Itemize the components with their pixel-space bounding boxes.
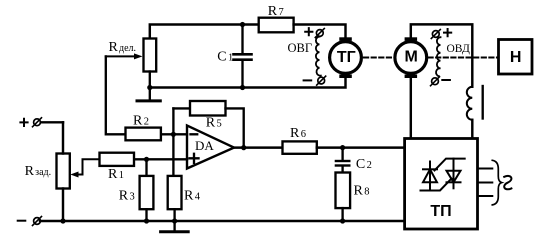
thyristor VS1 left — [423, 162, 437, 191]
terminal input plus — [20, 118, 63, 127]
svg-text:Rзад.: Rзад. — [25, 164, 52, 179]
wiper arrow of Rдел — [106, 53, 143, 59]
wire R6 to TP — [317, 146, 405, 148]
node R5 branch on inverting wire — [171, 132, 176, 137]
svg-text:М: М — [405, 49, 418, 66]
svg-text:Rдел.: Rдел. — [109, 40, 137, 55]
node feedback on output wire — [241, 145, 246, 150]
svg-text:ТГ: ТГ — [337, 49, 356, 66]
svg-text:R3: R3 — [119, 188, 135, 203]
svg-text:R1: R1 — [108, 167, 124, 182]
wire thyristor rails — [421, 159, 465, 191]
svg-text:R8: R8 — [354, 183, 370, 198]
terminal OVD minus — [431, 77, 450, 86]
node Rдел bottom junction — [147, 85, 152, 90]
capacitor C1 — [217, 25, 251, 88]
wire Rдел wiper to R2 — [106, 56, 126, 134]
svg-text:R6: R6 — [290, 126, 306, 141]
wire op-amp output — [234, 146, 283, 148]
resistor R4 — [168, 176, 201, 230]
thyristor VS2 right — [447, 159, 461, 189]
wire bottom bus — [40, 220, 405, 222]
svg-text:ОВГ: ОВГ — [288, 41, 313, 55]
svg-text:Н: Н — [510, 49, 522, 66]
terminal OVG minus — [304, 76, 326, 85]
resistor R7 — [259, 4, 294, 32]
wire top bus from Rдел top to R7 — [150, 25, 259, 39]
ground under Rдел — [137, 88, 160, 101]
svg-text:R5: R5 — [206, 116, 222, 131]
wire M armature top loop — [411, 24, 473, 86]
resistor R1 — [100, 153, 135, 182]
node C1 bottom junction — [240, 85, 245, 90]
field winding OVD coil — [436, 37, 470, 76]
field winding OVG coil — [288, 37, 321, 76]
resistor R5 — [173, 101, 243, 148]
thyristor converter TP box — [405, 139, 478, 230]
wire AC input stubs — [478, 169, 493, 197]
wire M armature bottom — [410, 78, 412, 139]
motor M — [395, 37, 427, 78]
svg-text:R4: R4 — [184, 188, 201, 203]
svg-text:C2: C2 — [356, 157, 372, 172]
wire R5 feedback branch vertical — [172, 108, 174, 175]
wire inverting input — [161, 133, 187, 135]
wire bottom of tacho loop — [150, 78, 346, 88]
svg-text:DA: DA — [195, 138, 214, 153]
tachogenerator TG — [330, 37, 362, 78]
node C2 on output wire — [340, 145, 345, 150]
terminal input minus — [18, 217, 42, 226]
resistor R8 — [336, 173, 370, 222]
resistor R3 — [119, 159, 154, 221]
potentiometer Rдел — [109, 39, 157, 88]
svg-text:ТП: ТП — [430, 203, 451, 220]
resistor R2 — [126, 114, 161, 141]
node C1 top junction — [240, 22, 245, 27]
ground under R4 — [161, 230, 189, 233]
node R4 on bus — [172, 218, 177, 223]
shaft dashed TG to M — [364, 57, 393, 59]
node R3 bottom — [144, 218, 149, 223]
resistor R6 — [283, 126, 317, 154]
terminal OVG plus — [305, 28, 324, 37]
shaft dashed M to N — [429, 57, 499, 59]
node R3 top — [144, 157, 149, 162]
load block N — [499, 40, 533, 75]
svg-text:C1: C1 — [217, 49, 233, 64]
svg-text:R7: R7 — [268, 4, 284, 19]
node R8 on bus — [340, 218, 345, 223]
wire R1 to Rзад wiper — [70, 159, 99, 177]
node Rзад on bus — [60, 218, 65, 223]
wire R7 to TG top corner — [294, 25, 346, 38]
label AC tilde rotated — [504, 176, 511, 189]
brace AC — [492, 160, 501, 205]
terminal OVD plus — [431, 29, 451, 39]
capacitor C2 — [336, 148, 372, 173]
potentiometer Rзад — [25, 122, 70, 221]
wire noninverting input — [134, 158, 187, 160]
svg-text:R2: R2 — [133, 114, 149, 129]
svg-text:ОВД: ОВД — [447, 43, 471, 55]
op-amp DA — [187, 126, 234, 169]
inductor smoothing reactor — [467, 86, 483, 139]
